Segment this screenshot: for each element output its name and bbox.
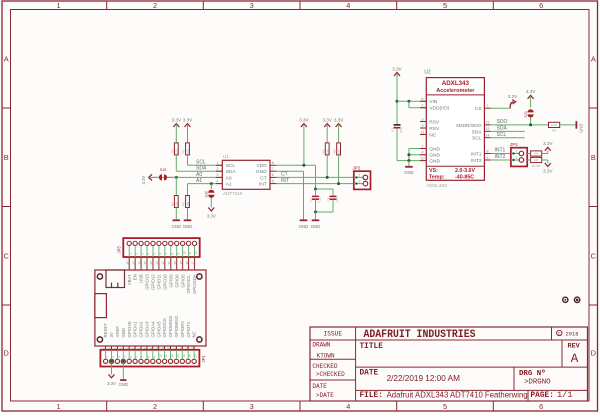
svg-text:VDD(I/O): VDD(I/O) <box>429 106 449 112</box>
connector JP3 pin 1 lead <box>128 246 130 257</box>
svg-text:2/22/2019 12:00 AM: 2/22/2019 12:00 AM <box>387 374 460 383</box>
connector JP3 pin 2 lead <box>134 246 136 257</box>
svg-text:13: 13 <box>176 354 180 358</box>
wire feather top pin GPIOSDA <box>194 257 196 270</box>
wire GND from U1 <box>276 170 303 172</box>
svg-text:14: 14 <box>182 354 186 358</box>
connector JP1 pin 6 lead <box>134 350 136 359</box>
svg-text:CHECKED: CHECKED <box>312 363 338 370</box>
wire feather top pin EN <box>134 257 136 270</box>
svg-text:DATE: DATE <box>360 369 379 377</box>
svg-text:GND: GND <box>429 159 440 165</box>
resistor R9 100K on SDO <box>549 122 560 127</box>
svg-text:A: A <box>4 54 9 63</box>
svg-text:USB: USB <box>139 274 144 283</box>
wire VDD corner down to cap rail <box>315 165 317 189</box>
wire R3 bottom to CT <box>326 155 328 178</box>
wire R7 to 3.3V <box>527 153 530 155</box>
svg-text:26: 26 <box>137 261 141 265</box>
svg-text:RESET: RESET <box>103 323 108 338</box>
resistor R3 10K (CT pullup) <box>325 143 329 155</box>
svg-text:D: D <box>4 349 9 358</box>
svg-text:5: 5 <box>443 1 447 10</box>
svg-text:1: 1 <box>516 150 518 154</box>
power 3.3V arrow below SJ2 <box>208 208 214 211</box>
wire R4 top <box>338 124 340 143</box>
svg-text:ADDR/SDO: ADDR/SDO <box>456 123 482 129</box>
svg-text:3.3V: 3.3V <box>299 118 309 123</box>
svg-text:VDD: VDD <box>256 163 267 169</box>
svg-text:7: 7 <box>487 104 489 108</box>
wire SJ1 top <box>530 96 532 108</box>
svg-text:10: 10 <box>155 346 159 350</box>
svg-text:3.3V: 3.3V <box>543 169 553 174</box>
pin A1 of U1 (left, pin 4) <box>216 183 222 185</box>
svg-text:3.3V: 3.3V <box>107 381 116 386</box>
node INT junction at R4 <box>337 182 340 185</box>
svg-text:JP2: JP2 <box>353 165 361 170</box>
svg-text:GPIOA1: GPIOA1 <box>133 321 138 338</box>
svg-text:U1: U1 <box>223 154 229 159</box>
svg-text:0.1uF: 0.1uF <box>318 195 322 202</box>
svg-text:15: 15 <box>184 346 188 350</box>
svg-text:2: 2 <box>153 1 157 10</box>
svg-text:3.3V: 3.3V <box>183 118 193 123</box>
connector JP3 pin 6 lead <box>158 246 160 257</box>
wire SJ5 to A0 node <box>167 176 176 178</box>
power 3.3V arrow above R4 <box>336 124 342 127</box>
frame column tick 1 bottom <box>106 401 108 411</box>
solder jumper SJ1 <box>528 109 534 112</box>
svg-text:-40-85C: -40-85C <box>455 174 474 180</box>
svg-text:REV: REV <box>568 342 581 350</box>
node A1 junction at SJ2 <box>210 182 213 185</box>
connector JP1 pin 11 lead <box>164 350 166 359</box>
wire A1 to SJ2 <box>210 184 212 189</box>
svg-text:4: 4 <box>216 179 218 183</box>
svg-text:DRG Nº: DRG Nº <box>519 369 546 378</box>
svg-text:1: 1 <box>57 402 61 411</box>
connector JP3 pin 8 lead <box>170 246 172 257</box>
connector JP1 pin 16 circle <box>192 359 196 363</box>
svg-text:Temp:: Temp: <box>429 174 445 180</box>
connector JP4 pin 2 <box>511 159 519 161</box>
wire feather top pin VBAT <box>128 257 130 270</box>
connector JP1 pin 5 circle <box>127 359 131 363</box>
pin RSV of U2 (left, pin 3) <box>420 121 426 123</box>
svg-text:17: 17 <box>191 261 195 265</box>
IC U2 spec separator <box>426 165 484 167</box>
svg-text:A0: A0 <box>226 175 232 181</box>
power 3.3V arrow below feather <box>109 374 115 377</box>
wire feather bottom pin GPIORX <box>181 346 183 350</box>
svg-text:3.3V: 3.3V <box>322 118 332 123</box>
wire feather top pin GPIO6 <box>176 257 178 270</box>
frame row tick 3 right <box>589 304 598 306</box>
svg-text:KTOWN: KTOWN <box>317 353 335 360</box>
svg-text:6: 6 <box>422 97 424 101</box>
svg-text:C1: C1 <box>309 197 313 201</box>
wire INT from U1 to JP2 <box>276 183 353 185</box>
wire feather bottom pin GPIOA3 <box>146 346 148 350</box>
svg-text:ADAFRUIT INDUSTRIES: ADAFRUIT INDUSTRIES <box>364 329 476 341</box>
connector JP1 pin 3 lead <box>116 350 118 359</box>
pin SCL of U2 (right, pin 14) <box>484 137 490 139</box>
svg-text:11: 11 <box>164 354 168 357</box>
wire GND pin2 horizontal <box>409 154 426 156</box>
title block row line 3 (below DATE) <box>356 389 588 391</box>
solder jumper SJ2 on A1 <box>208 190 214 193</box>
svg-text:ADXL343: ADXL343 <box>442 80 470 87</box>
wire VDD from U1 <box>276 164 315 166</box>
svg-text:10: 10 <box>182 251 186 255</box>
connector JP3 pin 3 circle <box>139 241 143 245</box>
node CT junction at R3 <box>326 176 329 179</box>
wire arrow to SJ5 <box>149 176 157 178</box>
pin ADDR/SDO of U2 (right, pin 12) <box>484 124 490 126</box>
svg-text:1uF: 1uF <box>335 197 339 202</box>
wire R3 top <box>326 124 328 143</box>
svg-text:D: D <box>591 349 596 358</box>
svg-text:AREF: AREF <box>115 326 120 338</box>
node GND tie junction b <box>407 159 410 162</box>
title block outline <box>310 327 588 401</box>
title block left column divider <box>355 327 357 401</box>
svg-text:10K: 10K <box>186 202 190 207</box>
resistor R6 10K (A1 pulldown) <box>186 196 190 208</box>
connector JP3 pin 1 circle <box>127 241 131 245</box>
svg-text:ADT7410: ADT7410 <box>223 191 243 196</box>
connector JP1 pin 6 circle <box>133 359 137 363</box>
wire CT from U1 to JP2 <box>276 176 353 178</box>
wire feather bottom pin GPIOTX <box>187 346 189 350</box>
svg-text:C: C <box>4 251 10 260</box>
op IC U2 ADXL343 box <box>426 78 484 181</box>
svg-text:GPIOA0: GPIOA0 <box>127 321 132 338</box>
svg-text:INT: INT <box>259 182 267 188</box>
svg-text:19: 19 <box>179 261 183 265</box>
connector JP1 pin 10 circle <box>157 359 161 363</box>
svg-text:3: 3 <box>250 1 254 10</box>
svg-text:INT1: INT1 <box>471 151 482 157</box>
title block left col line a <box>310 358 356 360</box>
svg-text:1: 1 <box>57 1 61 10</box>
node cap rail top junction <box>314 188 317 191</box>
connector JP3 pin 7 circle <box>163 241 167 245</box>
pin SDA of U1 (left, pin 2) <box>216 170 222 172</box>
connector JP3 pin 4 circle <box>145 241 149 245</box>
power 3.3V arrow for INT2 <box>545 163 551 166</box>
pin A0 of U1 (left, pin 3) <box>216 176 222 178</box>
wire feather top pin GPIO13 <box>146 257 148 270</box>
pin SCL of U1 (left, pin 1) <box>216 164 222 166</box>
svg-text:NC: NC <box>429 132 437 138</box>
connector JP4 pin 1 <box>511 153 519 155</box>
connector JP3 pin 10 circle <box>181 241 185 245</box>
pin VIN of U2 (left, pin 6) <box>420 100 426 102</box>
wire feather bottom pin GPIOA1 <box>134 346 136 350</box>
svg-text:TITLE: TITLE <box>360 343 384 351</box>
wire feather bottom pin GPIOSCK <box>164 346 166 350</box>
node VIN/VDD tie junction <box>407 100 410 103</box>
svg-text:GPIOSDA: GPIOSDA <box>192 274 197 294</box>
connector JP1 pin 8 circle <box>145 359 149 363</box>
svg-text:3.3V: 3.3V <box>207 214 216 219</box>
title block left col line b <box>310 379 356 381</box>
svg-text:FILE:: FILE: <box>360 392 383 400</box>
connector JP1 pin 1 circle <box>103 359 107 363</box>
svg-text:JP4: JP4 <box>510 142 518 147</box>
pin GND of U2 (left, pin 10) <box>420 160 426 162</box>
svg-text:A1: A1 <box>226 182 232 188</box>
svg-text:10K: 10K <box>186 149 190 154</box>
wire GND pin1 horizontal <box>409 148 426 150</box>
power 3.3V arrow above R1 <box>185 124 191 127</box>
svg-text:CT: CT <box>281 172 288 178</box>
connector JP1 pin 9 lead <box>152 350 154 359</box>
wire feather top pin GPIOSCL <box>188 257 190 270</box>
connector JP1 pin 4 lead <box>122 350 124 359</box>
svg-text:3: 3 <box>250 402 254 411</box>
connector JP1 pin 10 lead <box>158 350 160 359</box>
svg-text:R9: R9 <box>552 128 556 132</box>
svg-text:GPIO11: GPIO11 <box>157 274 162 290</box>
svg-text:GND: GND <box>121 328 126 338</box>
frame column tick 4 top <box>396 1 398 10</box>
op IC U1 ADT7410 box <box>222 160 270 189</box>
svg-text:24: 24 <box>149 261 153 265</box>
svg-text:2: 2 <box>359 180 361 184</box>
wire feather bottom pin GPIOA5 <box>158 346 160 350</box>
wire VDD(I/O) horizontal <box>409 107 426 109</box>
svg-text:10K: 10K <box>175 149 179 154</box>
svg-text:GND: GND <box>183 224 193 229</box>
svg-text:GND: GND <box>172 224 182 229</box>
connector JP1 pin 14 circle <box>180 359 184 363</box>
resistor R1 10K (SCL pullup) <box>186 143 190 155</box>
svg-text:GPIOTX: GPIOTX <box>186 321 191 337</box>
wire R5 bottom to GND <box>175 208 177 220</box>
wire feather top pin GPIO10 <box>164 257 166 270</box>
svg-text:SDA: SDA <box>497 126 508 132</box>
wire U2 GND pins tie <box>408 149 410 161</box>
connector JP3 pin 12 lead <box>194 246 196 257</box>
svg-text:U2: U2 <box>424 70 431 76</box>
feather battery connector <box>95 294 107 318</box>
svg-text:>CHECKED: >CHECKED <box>316 371 345 378</box>
svg-text:4: 4 <box>346 402 350 411</box>
node VDD junction <box>302 164 305 167</box>
svg-text:A: A <box>571 352 579 366</box>
connector JP1 pin 12 circle <box>168 359 172 363</box>
connector JP3 pin 5 lead <box>152 246 154 257</box>
svg-text:13: 13 <box>173 346 177 350</box>
svg-text:14: 14 <box>179 346 183 350</box>
svg-text:DRAWN: DRAWN <box>312 341 330 348</box>
connector JP3 pin 2 circle <box>133 241 137 245</box>
svg-text:GND: GND <box>404 170 414 175</box>
svg-text:A: A <box>591 54 596 63</box>
svg-text:3.3V: 3.3V <box>392 67 402 72</box>
svg-text:GPIOA5: GPIOA5 <box>156 321 161 338</box>
node A0 junction at R5 <box>175 176 178 179</box>
svg-text:5: 5 <box>272 179 274 183</box>
wire feather top pin GPIO12 <box>152 257 154 270</box>
svg-text:GPIO5: GPIO5 <box>180 274 185 288</box>
pin RSV of U2 (left, pin 5) <box>420 127 426 129</box>
svg-text:8: 8 <box>487 149 489 153</box>
svg-text:3.3V: 3.3V <box>334 118 344 123</box>
svg-text:GND: GND <box>119 382 129 387</box>
wire C2 bottom lead <box>332 200 334 212</box>
wire GND pin3 horizontal <box>409 160 426 162</box>
node GND tie junction a <box>407 153 410 156</box>
svg-text:7: 7 <box>272 167 274 171</box>
resistor R2 10K (SDA pullup) <box>174 143 178 155</box>
connector JP1 pin 13 lead <box>175 350 177 359</box>
svg-text:GND: GND <box>299 224 309 229</box>
feather mounting hole bottom-right <box>197 337 202 342</box>
svg-text:23: 23 <box>155 261 159 265</box>
connector JP1 pin 12 lead <box>170 350 172 359</box>
connector JP3 pin 11 circle <box>186 241 190 245</box>
wire R6 top from A1 <box>187 184 189 196</box>
svg-text:2: 2 <box>216 167 218 171</box>
pin CT of U1 (right, pin 6) <box>270 176 276 178</box>
title block row line 2 (below TITLE) <box>356 366 588 368</box>
title block REV box divider <box>561 340 563 367</box>
wire SJ1 bottom to SDO <box>530 118 532 125</box>
pin VDD(I/O) of U2 (left, pin 1) <box>420 107 426 109</box>
svg-text:2018: 2018 <box>566 331 579 337</box>
wire R5 top from A0 <box>175 177 177 195</box>
connector JP1 pin 1 lead <box>105 350 107 359</box>
ground symbol under caps <box>312 219 320 221</box>
ground symbol below R6 <box>184 219 192 221</box>
svg-text:SCL: SCL <box>497 132 507 138</box>
ground symbol rotated on SDO <box>575 121 577 129</box>
wire VIN to VDD tie <box>408 101 410 107</box>
svg-text:VS:: VS: <box>429 168 438 174</box>
wire SDO resistor to GND <box>560 124 576 126</box>
svg-text:10K: 10K <box>534 152 539 156</box>
wire R2 top <box>175 124 177 143</box>
frame row tick 3 left <box>2 304 11 306</box>
ground symbol below feather <box>120 379 126 381</box>
svg-text:5: 5 <box>443 402 447 411</box>
svg-text:GND: GND <box>429 146 440 152</box>
power 3.3V arrow for INT1 <box>545 147 551 150</box>
svg-text:1: 1 <box>359 173 361 177</box>
node SDO junction at SJ1 <box>529 123 532 126</box>
connector JP3 pin 6 circle <box>157 241 161 245</box>
svg-text:GPIOA3: GPIOA3 <box>145 321 150 338</box>
wire CS to 3.3V <box>491 107 511 109</box>
wire SCL stub to U1 <box>188 164 223 166</box>
svg-text:10uF: 10uF <box>399 127 403 133</box>
connector JP3 pin 9 circle <box>175 241 179 245</box>
svg-text:SDA: SDA <box>226 169 237 175</box>
wire R1 bottom to SCL <box>187 155 189 165</box>
svg-text:11: 11 <box>421 130 425 134</box>
svg-text:3.3V: 3.3V <box>543 141 553 146</box>
svg-text:ADXL343: ADXL343 <box>426 183 447 189</box>
wire feather bottom pin GPIOMISO <box>175 346 177 350</box>
wire INT1 to JP4 <box>491 153 511 155</box>
wire SCL stub <box>491 137 525 139</box>
svg-text:SCL: SCL <box>226 163 236 169</box>
feather USB connector <box>106 270 125 288</box>
pin GND of U1 (right, pin 7) <box>270 170 276 172</box>
connector JP1 pin 13 circle <box>174 359 178 363</box>
pin GND of U2 (left, pin 2) <box>420 148 426 150</box>
svg-text:6: 6 <box>539 1 543 10</box>
svg-text:PAGE:: PAGE: <box>531 392 554 400</box>
title block DRG box divider <box>513 367 515 390</box>
frame row tick 2 right <box>589 206 598 208</box>
svg-text:SDO: SDO <box>497 119 508 125</box>
connector JP1 pin 4 circle <box>121 359 125 363</box>
connector JP1 pin 9 circle <box>151 359 155 363</box>
svg-text:10K: 10K <box>326 149 330 154</box>
svg-text:JP3: JP3 <box>116 246 121 254</box>
svg-text:GPIOA4: GPIOA4 <box>150 321 155 338</box>
wire feather bottom pin AREF <box>116 346 118 350</box>
svg-text:2.0-3.6V: 2.0-3.6V <box>455 168 475 174</box>
capacitor C2 1uF <box>330 195 337 197</box>
svg-text:VBAT: VBAT <box>127 274 132 285</box>
ground symbol below U2 <box>405 166 413 168</box>
svg-text:CS: CS <box>475 106 483 112</box>
wire C3 bottom to GND rail <box>396 128 398 161</box>
svg-text:B: B <box>591 153 596 162</box>
title block copyright symbol <box>557 330 562 335</box>
svg-text:RSV: RSV <box>429 119 440 125</box>
wire 3.3V down to VDD <box>303 124 305 165</box>
svg-text:SDA: SDA <box>196 166 207 172</box>
connector JP1 pin 15 lead <box>187 350 189 359</box>
wire SJ2 to arrow <box>210 198 212 208</box>
svg-text:9: 9 <box>487 156 489 160</box>
node feather GND pin dot <box>122 360 125 363</box>
connector JP1 pin 7 circle <box>139 359 143 363</box>
svg-text:3.3V: 3.3V <box>526 89 536 94</box>
svg-text:12: 12 <box>486 121 490 125</box>
connector JP1 pin 16 lead <box>193 350 195 359</box>
svg-text:11: 11 <box>188 251 192 254</box>
svg-text:4: 4 <box>422 151 424 155</box>
wire feather bottom pin RESET <box>105 346 107 350</box>
svg-text:A1: A1 <box>196 178 202 184</box>
svg-text:C: C <box>591 251 597 260</box>
wire feather bottom pin 3V <box>111 346 113 350</box>
connector JP1 pin 14 lead <box>181 350 183 359</box>
wire GND down to symbol <box>408 161 410 167</box>
svg-text:12: 12 <box>167 346 171 350</box>
svg-text:GPIO6: GPIO6 <box>174 274 179 288</box>
resistor R8 10K (INT2 pullup) <box>531 157 542 162</box>
pin INT1 of U2 (right, pin 8) <box>484 153 490 155</box>
wire feather bottom pin GPIOA0 <box>128 346 130 350</box>
pin SDA of U2 (right, pin 13) <box>484 130 490 132</box>
svg-text:SDA: SDA <box>471 129 482 135</box>
svg-text:25: 25 <box>143 261 147 265</box>
wire cap bottom rail <box>316 211 334 213</box>
svg-text:CT: CT <box>260 175 267 181</box>
fiducial mark 1 <box>563 297 568 302</box>
svg-text:16: 16 <box>194 354 198 358</box>
connector JP3 box (feather top header) <box>123 238 199 257</box>
